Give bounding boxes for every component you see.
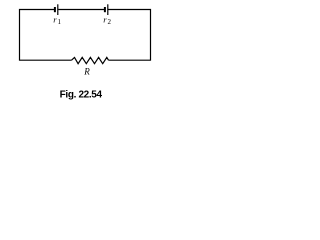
label r1: [53, 15, 61, 26]
wire: top-right segment and right side: [108, 10, 150, 61]
battery cell r1: [55, 4, 58, 15]
battery cell r2: [105, 4, 108, 15]
svg-text:2: 2: [108, 18, 112, 26]
wire: bottom-right segment: [109, 59, 151, 61]
wire: bottom-left segment: [20, 59, 72, 61]
label r2: [103, 15, 111, 26]
svg-text:Fig. 22.54: Fig. 22.54: [60, 89, 103, 100]
wire: top segment between cells: [58, 9, 104, 11]
svg-text:1: 1: [58, 18, 62, 26]
svg-text:R: R: [83, 66, 90, 76]
resistor R: [72, 57, 109, 63]
wire: left side and top-left segment to cell r1: [20, 10, 55, 61]
